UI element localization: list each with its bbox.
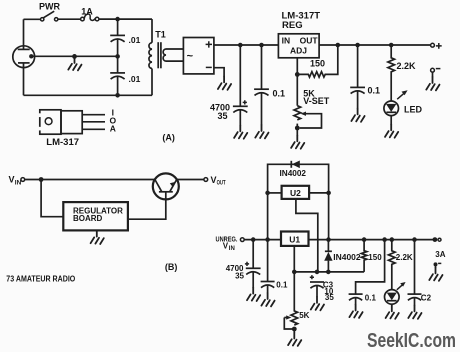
svg-text:35: 35 xyxy=(235,272,244,281)
svg-text:IN: IN xyxy=(229,246,235,252)
svg-text:~: ~ xyxy=(187,51,194,63)
svg-text:150: 150 xyxy=(310,59,325,69)
svg-text:IN4002: IN4002 xyxy=(280,169,307,178)
svg-text:PWR: PWR xyxy=(39,2,60,12)
svg-text:U1: U1 xyxy=(289,235,300,245)
svg-text:0.1: 0.1 xyxy=(365,294,377,303)
svg-text:1A: 1A xyxy=(81,6,93,16)
svg-text:(B): (B) xyxy=(165,262,178,272)
svg-text:(A): (A) xyxy=(162,133,175,143)
svg-text:T1: T1 xyxy=(155,30,166,40)
svg-text:C2: C2 xyxy=(421,294,432,303)
svg-text:0.1: 0.1 xyxy=(368,86,381,96)
svg-text:SeekIC.com: SeekIC.com xyxy=(367,330,456,352)
svg-text:BOARD: BOARD xyxy=(73,214,103,223)
svg-text:73 AMATEUR RADIO: 73 AMATEUR RADIO xyxy=(6,273,75,283)
svg-text:U2: U2 xyxy=(290,188,301,198)
svg-text:LM-317: LM-317 xyxy=(46,137,79,148)
svg-text:3A: 3A xyxy=(435,250,445,259)
svg-text:A: A xyxy=(110,124,116,134)
svg-text:0.1: 0.1 xyxy=(273,89,286,99)
svg-text:35: 35 xyxy=(217,111,227,121)
svg-text:OUT: OUT xyxy=(217,181,226,187)
svg-text:REG: REG xyxy=(282,20,303,31)
svg-text:ADJ: ADJ xyxy=(290,46,307,56)
svg-text:2.2K: 2.2K xyxy=(397,61,417,71)
svg-text:35: 35 xyxy=(325,293,334,302)
svg-text:V: V xyxy=(9,175,15,185)
svg-text:150: 150 xyxy=(368,253,382,262)
svg-text:V-SET: V-SET xyxy=(303,96,329,106)
svg-text:IN: IN xyxy=(282,35,291,45)
svg-text:2.2K: 2.2K xyxy=(396,253,413,262)
svg-text:IN4002: IN4002 xyxy=(333,253,361,262)
svg-text:0.1: 0.1 xyxy=(276,281,288,290)
svg-text:5K: 5K xyxy=(299,311,309,320)
svg-text:.01: .01 xyxy=(129,35,141,45)
svg-text:.01: .01 xyxy=(129,74,141,84)
svg-text:OUT: OUT xyxy=(300,35,319,45)
svg-text:LED: LED xyxy=(404,105,423,115)
